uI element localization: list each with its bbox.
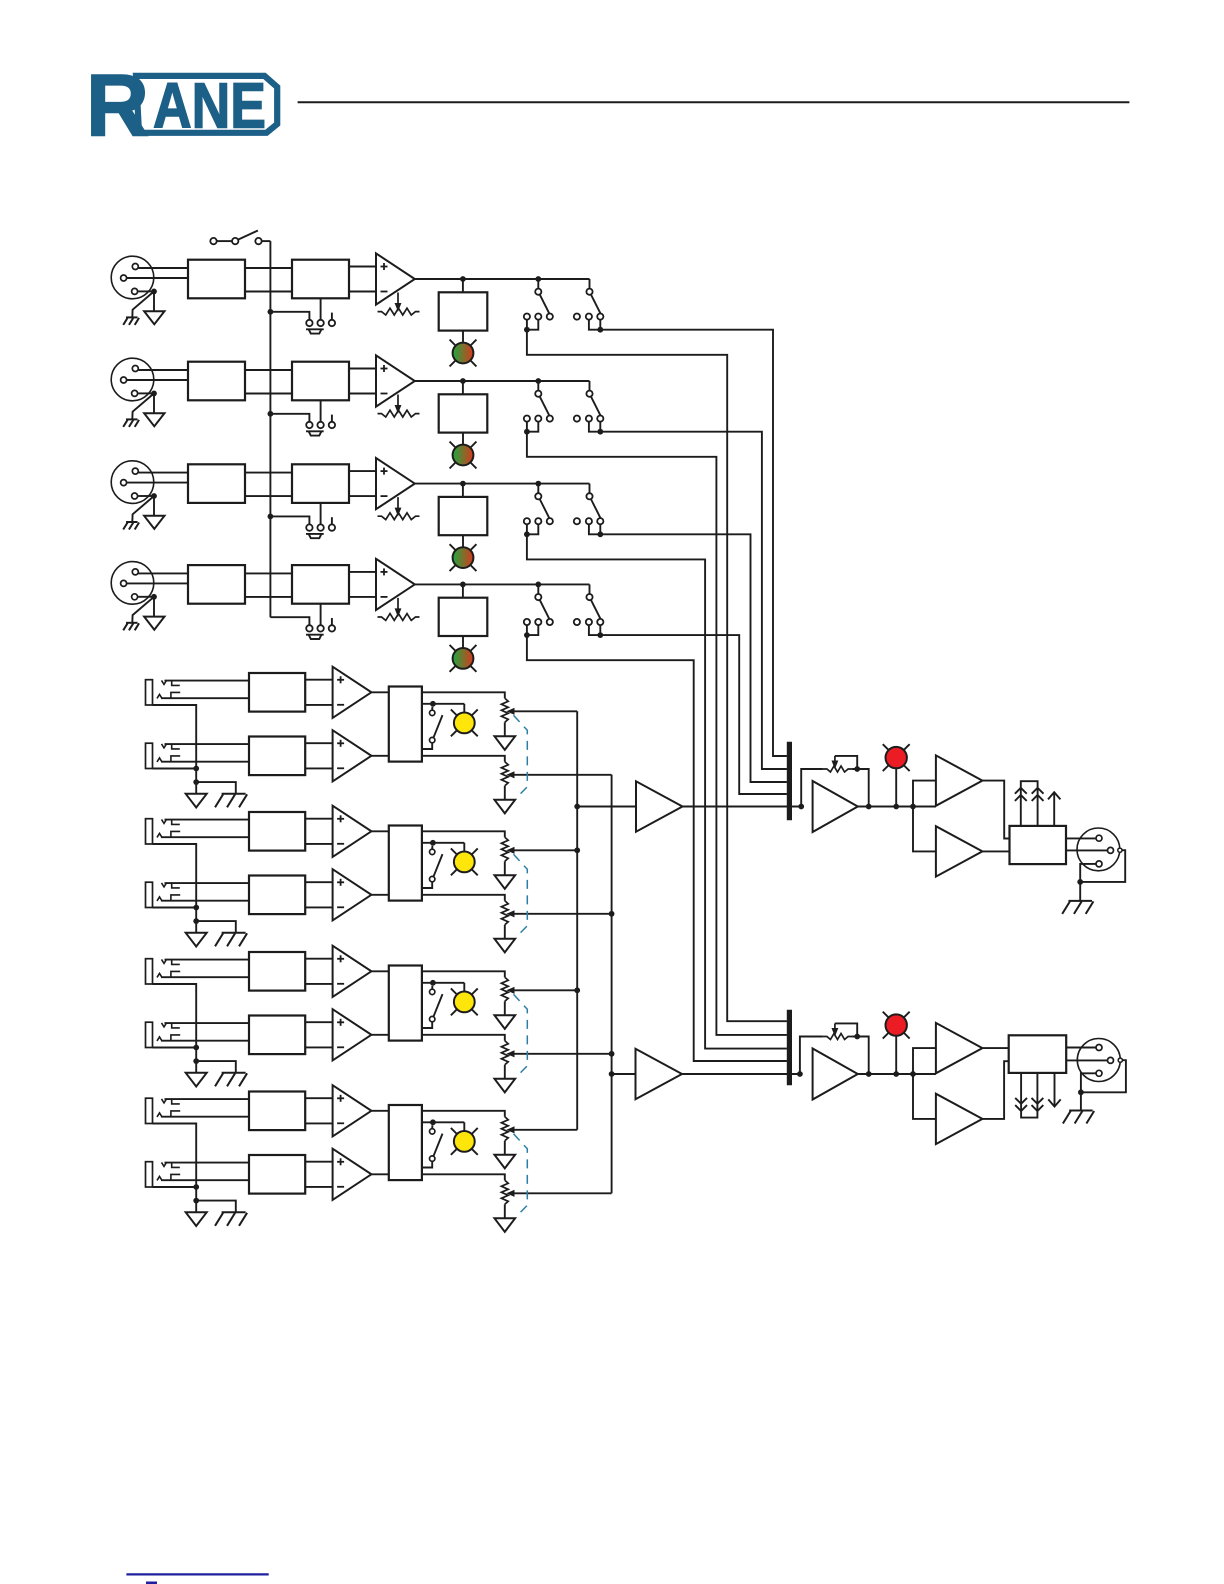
junction output ground right	[1078, 1089, 1084, 1095]
junction pair1 sleeve node	[193, 766, 199, 772]
junction mic3 switch A tap	[535, 481, 541, 487]
line input jack 3B	[146, 1022, 167, 1047]
wire fader 4A to left sum bus	[513, 1129, 577, 1131]
wire fader 1B to right sum bus	[513, 774, 612, 776]
wire to mic3 meter box	[462, 484, 464, 497]
line sum amplifier U10 left	[636, 781, 683, 831]
wire pair1 mono switch tap	[422, 703, 464, 705]
assign switch A mic3	[524, 493, 553, 524]
op-amp mic1 preamp	[376, 253, 415, 304]
mix bus bar left	[787, 742, 792, 821]
mic2 meter box	[439, 394, 488, 432]
junction mic1 switch A output	[524, 327, 530, 333]
mic input XLR J2	[111, 358, 154, 401]
wire XLR pin3 to ground right	[1081, 1073, 1096, 1092]
jack 3B ring normal hook	[171, 1035, 180, 1041]
overload LED U10 left	[883, 744, 910, 771]
jack 4B ring normal hook	[171, 1174, 180, 1180]
wire jack 3B sleeve	[153, 1047, 197, 1049]
wire pair3 sleeve to ground node	[195, 1048, 197, 1062]
feedback wire U11 right	[800, 1037, 823, 1075]
signal ground fader 2B	[495, 939, 516, 953]
line1A input box	[249, 673, 305, 712]
phantom switch contacts mic3	[306, 524, 335, 530]
wire mic1 switch B to right bus	[600, 330, 787, 756]
wire fader 2A to ground	[504, 861, 506, 875]
junction left sum pair2	[574, 847, 580, 853]
wire jack 4B sleeve	[153, 1186, 197, 1188]
wire op-amp 4A to balance box	[371, 1110, 388, 1112]
jack 1A ring normal hook	[171, 692, 180, 698]
junction LED tap U11 right	[893, 1071, 899, 1077]
chassis ground mic2	[126, 418, 138, 420]
wire fader 2B to right sum bus	[513, 913, 612, 915]
wire line3B box to op-amp (+)	[305, 1021, 332, 1023]
mono switch pair3	[422, 986, 443, 1028]
wire mic2 to switch B common	[589, 381, 591, 391]
wire line4A box to op-amp (+)	[305, 1097, 332, 1099]
wire phantom tap to mic2 phantom contact	[270, 414, 309, 422]
wire jack 2A tip to box	[165, 819, 250, 821]
wire mic4 box1 to box2 (cold)	[245, 596, 292, 598]
wire upper driver to output box right	[982, 1047, 1008, 1049]
jack 3B tip normal hook	[172, 1023, 180, 1028]
mix amplifier U10 left	[813, 781, 858, 832]
gain trim pot mic3	[378, 497, 420, 519]
wire mic2 switch A to left bus	[527, 432, 787, 1035]
assign switch B mic4	[574, 594, 604, 625]
wire to mic2 switch A common	[537, 381, 539, 391]
junction pair2 sleeve node	[193, 905, 199, 911]
wire mic3 to switch B common	[589, 484, 591, 494]
chassis ground pair4	[222, 1211, 246, 1213]
mix amplifier U11 right	[813, 1049, 858, 1100]
wire line sum amp to mix amp U10 left	[683, 806, 802, 808]
mic4 input transformer box	[188, 565, 245, 604]
wire line1B box to op-amp (-)	[305, 767, 332, 769]
wire mic3 box2 to op-amp (-)	[349, 495, 376, 497]
wire to upper driver U11 right	[913, 1048, 936, 1074]
wire LED to output U11 right	[895, 1036, 897, 1074]
wire mic3 switch A to left bus	[527, 534, 787, 1048]
wire box to XLR pin2 right	[1066, 1047, 1096, 1049]
wire jack 1B ring to box	[161, 761, 249, 763]
line input jack 2A	[146, 819, 167, 844]
wire pair2 sleeve to ground node	[195, 908, 197, 922]
svg-text:R: R	[86, 56, 149, 155]
gain trim pot mic4	[378, 598, 420, 621]
jack 2A tip normal hook	[172, 820, 180, 825]
chassis ground mic1	[126, 316, 138, 318]
wire to mic2 meter box	[462, 381, 464, 394]
signal ground mic4	[144, 617, 164, 630]
chassis ground mic3	[126, 521, 138, 523]
gang link pair2	[514, 854, 528, 937]
upper output driver U11 right	[936, 1023, 983, 1073]
jack 3A ring normal hook	[171, 971, 180, 977]
wire to upper driver U10 left	[913, 781, 936, 807]
wire XLR J4 pin3 to input box	[127, 582, 188, 584]
signal ground fader 1B	[495, 800, 516, 814]
line input jack 4A	[146, 1098, 167, 1123]
junction pot wiper U11 right	[854, 1034, 860, 1040]
wire line2B box to op-amp (-)	[305, 906, 332, 908]
junction mic2 switch B output	[597, 429, 603, 435]
signal ground pair2	[186, 933, 207, 947]
wire jack 2A sleeve	[153, 844, 197, 908]
wire XLR J2 pin3 to input box	[127, 379, 188, 381]
jack 3A tip normal hook	[172, 960, 180, 965]
floating output arrows left	[1015, 781, 1061, 826]
wire mic4 switch A contacts tie	[527, 625, 538, 635]
wire pair1 sleeve to ground node	[195, 769, 197, 783]
left channel sum wire	[576, 711, 578, 1130]
junction mix amp output U11 right	[866, 1071, 872, 1077]
mic1 input transformer box	[188, 260, 245, 299]
chassis ground right output	[1069, 1110, 1093, 1112]
junction mic4 switch B output	[597, 632, 603, 638]
line input jack 1A	[146, 680, 167, 705]
signal ground fader 1A	[495, 736, 516, 750]
wire jack 4B ring to box	[161, 1179, 249, 1181]
wire XLR J3 pin3 to input box	[127, 482, 188, 484]
master level pot U11 right	[823, 1023, 857, 1039]
wire pair4 LED feed	[463, 1122, 465, 1131]
op-amp line1A	[333, 667, 372, 718]
wire mic4 switch B to right bus	[600, 635, 787, 794]
junction right sum pair3	[609, 1051, 615, 1057]
signal ground fader 4A	[495, 1155, 516, 1169]
signal ground fader 2A	[495, 875, 516, 889]
wire mic3 ground node to chassis ground	[132, 496, 154, 522]
wire jack 4A tip to box	[165, 1098, 250, 1100]
line2B input box	[249, 876, 305, 915]
master level pot U10 left	[823, 756, 857, 772]
wire balance box to fader 2B	[422, 895, 505, 901]
op-amp line2A	[333, 806, 372, 857]
line3A input box	[249, 952, 305, 991]
wire balance box to fader 3B	[422, 1035, 505, 1041]
junction mic1 switch B output	[597, 327, 603, 333]
junction mic1 switch A tap	[535, 276, 541, 282]
overload LED pair4	[451, 1128, 478, 1155]
wire mic1 to switch B common	[589, 279, 591, 289]
junction mic3 switch A output	[524, 531, 530, 537]
wire line2A box to op-amp (-)	[305, 843, 332, 845]
bicolor LED mic2	[450, 442, 477, 469]
signal ground mic2	[144, 413, 164, 426]
mic1 meter box	[439, 292, 488, 330]
junction mix amp input U10 left	[798, 804, 804, 810]
wire balance box to fader 1B	[422, 756, 505, 762]
wire to chassis ground right	[1080, 1092, 1082, 1110]
line3B input box	[249, 1016, 305, 1055]
stub above mic4 third contact	[331, 618, 333, 625]
junction mix amp input U11 right	[797, 1071, 803, 1077]
jack 2A ring normal hook	[171, 831, 180, 837]
output isolation box right	[1009, 1035, 1066, 1073]
junction pair4 sleeve node	[193, 1184, 199, 1190]
wire jack 4A sleeve	[153, 1124, 197, 1188]
wire mic1 op-amp output	[415, 278, 590, 280]
mono switch pair2	[422, 846, 443, 888]
junction mic1 meter tap	[460, 276, 466, 282]
wire mic4 ground node to chassis ground	[132, 597, 154, 623]
wire mic3 switch B contacts tie	[589, 524, 600, 534]
mono switch pair1	[422, 707, 443, 749]
junction mic4 meter tap	[460, 582, 466, 588]
wire mic1 box1 to box2 (cold)	[245, 291, 292, 293]
wire mic2 box1 to box2 (cold)	[245, 393, 292, 395]
wire mix amp output U11 right	[858, 1073, 936, 1075]
stub above mic1 third contact	[331, 313, 333, 320]
feedback return wire U11 right	[852, 1037, 869, 1075]
wire mic3 op-amp output	[415, 483, 590, 485]
wire left sum to amp	[577, 806, 636, 808]
wire jack 4B tip to box	[165, 1162, 250, 1164]
wire mic1 ground node to signal ground	[153, 291, 155, 311]
wire pair4 mono switch tap	[422, 1121, 464, 1123]
wire mic4 ground node to signal ground	[153, 597, 155, 617]
wire mic4 to switch B common	[589, 584, 591, 594]
op-amp line3B	[333, 1009, 372, 1060]
junction mic2 switch A tap	[535, 378, 541, 384]
balance box pair1	[389, 687, 422, 762]
stub above mic2 third contact	[331, 415, 333, 422]
wire mic3 meter box to LED	[462, 535, 464, 547]
jack 1B ring normal hook	[171, 756, 180, 762]
wire XLR J1 pin3 to input box	[127, 277, 188, 279]
junction mic1 ground node	[151, 289, 157, 295]
jack 1B tip normal hook	[172, 744, 180, 749]
chassis ground left output	[1068, 900, 1092, 902]
wire mic2 switch B to right bus	[600, 432, 787, 769]
wire fader 1A to ground	[504, 722, 506, 736]
op-amp mic3 preamp	[376, 458, 415, 509]
op-amp line4A	[333, 1085, 372, 1136]
wire op-amp 3A to balance box	[371, 970, 388, 972]
junction driver split U10 left	[910, 804, 916, 810]
line input jack 2B	[146, 882, 167, 907]
wire box to XLR pin1 left	[1066, 849, 1107, 851]
gang link pair1	[514, 715, 528, 798]
wire jack 2A ring to box	[161, 836, 249, 838]
line4A input box	[249, 1092, 305, 1131]
signal ground fader 3B	[495, 1079, 516, 1093]
balance box pair4	[389, 1105, 422, 1180]
wire mic3 switch B to right bus	[600, 534, 787, 782]
wire fader 1A to left sum bus	[513, 710, 577, 712]
signal ground pair4	[186, 1212, 207, 1226]
fader pot 3B	[501, 1041, 514, 1065]
line2A input box	[249, 812, 305, 851]
junction mic4 switch A output	[524, 632, 530, 638]
junction phantom tap mic1	[268, 309, 274, 315]
wire line4B box to op-amp (+)	[305, 1161, 332, 1163]
balance box pair3	[389, 966, 422, 1041]
stub above mic3 third contact	[331, 517, 333, 524]
wire mic3 box1 to box2 (hot)	[245, 472, 292, 474]
wire mic4 meter box to LED	[462, 636, 464, 648]
mic input XLR J1	[111, 256, 154, 299]
lower output driver U11 right	[936, 1094, 983, 1144]
wire pair1 LED feed	[463, 704, 465, 713]
wire pair3 to signal ground	[195, 1061, 197, 1073]
wire phantom tap to mic4 phantom contact	[270, 617, 309, 625]
wire mic1 switch A to left bus	[527, 330, 787, 1022]
wire phantom tap to mic3 phantom contact	[270, 516, 309, 524]
wire fader 4B to right sum bus	[513, 1192, 612, 1194]
overload LED pair2	[451, 848, 478, 875]
wire line1A box to op-amp (-)	[305, 704, 332, 706]
bicolor LED mic3	[450, 544, 477, 571]
wire pair2 LED feed	[463, 843, 465, 852]
wire pair1 to signal ground	[195, 782, 197, 794]
wire fader 4A to ground	[504, 1141, 506, 1155]
junction pair2 mono switch	[430, 840, 436, 846]
junction mic4 ground node	[151, 594, 157, 600]
Rane logo	[86, 56, 277, 155]
op-amp mic4 preamp	[376, 559, 415, 610]
wire mic1 ground node to chassis ground	[132, 291, 154, 317]
overload LED U11 right	[883, 1012, 910, 1039]
wire mic2 box2 to op-amp (-)	[349, 393, 376, 395]
wire pair4 to chassis ground	[196, 1201, 236, 1213]
mic2 input transformer box	[188, 362, 245, 401]
line4B input box	[249, 1155, 305, 1194]
phantom switch contacts mic2	[306, 422, 335, 428]
gain trim pot mic1	[378, 293, 420, 316]
wire mic4 switch B contacts tie	[589, 625, 600, 635]
svg-text:ANE: ANE	[153, 70, 266, 142]
fader pot 1B	[501, 762, 514, 786]
op-amp line2B	[333, 869, 372, 920]
overload LED pair3	[451, 988, 478, 1015]
wire op-amp 3B to balance box	[371, 1034, 388, 1036]
wire fader 2A to left sum bus	[513, 849, 577, 851]
wire line2A box to op-amp (+)	[305, 818, 332, 820]
fader pot 1A	[501, 698, 514, 722]
bicolor LED mic1	[450, 340, 477, 367]
wire jack 3A sleeve	[153, 984, 197, 1048]
wire XLR J4 pin2 to input box	[138, 572, 188, 574]
lower output driver U10 left	[936, 826, 983, 876]
wire jack 2B tip to box	[165, 882, 250, 884]
jack 4A ring normal hook	[171, 1111, 180, 1117]
wire to mic1 switch A common	[537, 279, 539, 289]
output XLR left	[1077, 828, 1122, 871]
wire mic4 box2 to op-amp (-)	[349, 596, 376, 598]
wire jack 3B ring to box	[161, 1040, 249, 1042]
wire line4A box to op-amp (-)	[305, 1122, 332, 1124]
wire line3A box to op-amp (-)	[305, 983, 332, 985]
wire mic2 meter box to LED	[462, 433, 464, 445]
floating bracket right	[1021, 1111, 1037, 1118]
mic1 preamp box	[292, 260, 349, 299]
chassis ground pair3	[222, 1072, 246, 1074]
wire balance box to fader 2A	[422, 831, 505, 837]
wire mic2 ground node to signal ground	[153, 393, 155, 413]
phantom supply bus wire	[269, 241, 271, 617]
wire mic2 op-amp output	[415, 380, 590, 382]
mic4 preamp box	[292, 565, 349, 604]
wire mic1 preamp to phantom contact	[320, 298, 322, 320]
chassis ground pair1	[222, 793, 246, 795]
signal ground mic3	[144, 516, 164, 529]
footer logo fragment	[146, 1582, 157, 1584]
wire pair2 mono switch tap	[422, 842, 464, 844]
junction LED tap U10 left	[893, 804, 899, 810]
floating output arrows right	[1015, 1073, 1060, 1118]
assign switch A mic2	[524, 391, 553, 422]
wire XLR J4 pin1 to ground	[138, 596, 152, 598]
bicolor LED mic4	[450, 645, 477, 672]
junction phantom tap mic3	[268, 514, 274, 520]
junction right sum output tap	[609, 1071, 615, 1077]
wire balance box to fader 3A	[422, 971, 505, 977]
junction left sum output tap	[574, 804, 580, 810]
wire op-amp 1A to balance box	[371, 691, 388, 693]
overload LED pair1	[451, 709, 478, 736]
wire pair2 to chassis ground	[196, 921, 236, 933]
junction pair4 mono switch	[430, 1119, 436, 1125]
junction mic3 ground node	[151, 493, 157, 499]
wire line4B box to op-amp (-)	[305, 1186, 332, 1188]
wire fader 4B to ground	[504, 1204, 506, 1218]
mix bus bar right	[787, 1010, 792, 1085]
wire XLR J1 pin1 to ground	[138, 290, 152, 292]
wire mic2 box2 to op-amp (+)	[349, 368, 376, 370]
wire XLR shell to ground left	[1080, 850, 1125, 882]
wire mic4 box1 to box2 (hot)	[245, 572, 292, 574]
gang link pair4	[514, 1134, 528, 1217]
phantom slide actuator mic2	[306, 431, 324, 435]
balance box pair2	[389, 826, 422, 901]
signal ground pair1	[186, 794, 207, 808]
line input jack 3A	[146, 959, 167, 984]
wire mic4 preamp to phantom contact	[320, 604, 322, 626]
output XLR right	[1077, 1039, 1122, 1082]
wire fader 3B to right sum bus	[513, 1053, 612, 1055]
mic3 input transformer box	[188, 464, 245, 503]
output isolation box left	[1010, 826, 1067, 864]
junction mic2 ground node	[151, 391, 157, 397]
line sum amplifier U11 right	[636, 1049, 683, 1099]
wire phantom tap to mic1 phantom contact	[270, 312, 309, 320]
wire balance box to fader 4A	[422, 1111, 505, 1117]
wire mic3 ground node to signal ground	[153, 496, 155, 516]
phantom power switch S5	[210, 231, 270, 245]
wire op-amp 1B to balance box	[371, 755, 388, 757]
op-amp line4B	[333, 1149, 372, 1200]
wire to mic1 meter box	[462, 279, 464, 292]
phantom slide actuator mic4	[306, 635, 324, 639]
feedback return wire U10 left	[852, 769, 869, 807]
jack 2B tip normal hook	[172, 883, 180, 888]
wire line2B box to op-amp (+)	[305, 881, 332, 883]
junction right sum pair2	[609, 911, 615, 917]
junction pair1 mono switch	[430, 701, 436, 707]
wire jack 2B ring to box	[161, 900, 249, 902]
junction pair3 ground node	[193, 1058, 199, 1064]
wire pair3 mono switch tap	[422, 982, 464, 984]
junction pair4 ground node	[193, 1198, 199, 1204]
mic input XLR J4	[111, 562, 154, 605]
junction pair2 ground node	[193, 918, 199, 924]
wire jack 1B sleeve	[153, 768, 197, 770]
wire mic1 box1 to box2 (hot)	[245, 267, 292, 269]
assign switch B mic2	[574, 391, 604, 422]
